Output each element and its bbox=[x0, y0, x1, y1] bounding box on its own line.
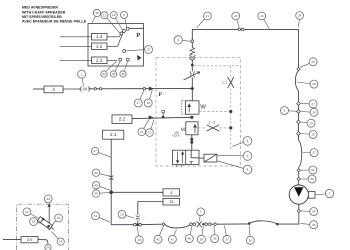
solenoid actuator bbox=[199, 154, 217, 162]
wire to hose 3 bbox=[33, 88, 44, 90]
fitting r5 bbox=[297, 132, 301, 136]
junction left main bbox=[109, 191, 113, 195]
fitting node f bbox=[126, 58, 129, 61]
svg-text:1.5: 1.5 bbox=[96, 44, 103, 49]
balloon b-bot6 bbox=[154, 226, 163, 243]
svg-text:3: 3 bbox=[52, 87, 55, 92]
balloon b-m7 bbox=[120, 71, 126, 77]
svg-text:47: 47 bbox=[93, 149, 97, 153]
right column wire 6 bbox=[298, 135, 300, 140]
svg-text:P: P bbox=[159, 92, 163, 98]
cyl feed wire bbox=[48, 206, 50, 230]
balloon b-filter bbox=[197, 208, 205, 221]
svg-text:30: 30 bbox=[311, 133, 315, 137]
junction below M a bbox=[190, 138, 193, 141]
balloon b-c0 bbox=[44, 195, 52, 203]
orifice 1..2 cross bbox=[228, 77, 234, 88]
svg-text:42: 42 bbox=[156, 237, 160, 241]
svg-text:+23-6: +23-6 bbox=[172, 134, 180, 138]
wire M to valve bbox=[191, 135, 193, 150]
svg-text:35: 35 bbox=[312, 223, 316, 227]
hose curve right a bbox=[295, 71, 298, 91]
hose bump bbox=[249, 221, 277, 224]
test point bbox=[162, 110, 165, 116]
balloon b-v2 bbox=[146, 120, 154, 137]
wire 2.0 right bbox=[38, 240, 48, 244]
fitting r3 bbox=[297, 110, 301, 114]
top line bbox=[192, 28, 298, 30]
pump P1 bbox=[289, 185, 315, 204]
svg-text:55: 55 bbox=[59, 240, 63, 244]
balloon b-cpl1 bbox=[134, 90, 144, 107]
balloon b-l2 bbox=[92, 169, 109, 176]
wire 2.1 down bbox=[110, 139, 112, 225]
orifice 2-3 cross bbox=[207, 125, 220, 131]
wire left of 1.5 bbox=[60, 45, 92, 47]
hose label 2.0 bbox=[21, 237, 38, 243]
svg-text:36: 36 bbox=[249, 238, 253, 242]
throttle arrow bbox=[184, 72, 200, 80]
balloon b-20end bbox=[45, 244, 51, 250]
balloon b-r9 bbox=[301, 166, 317, 174]
svg-text:39: 39 bbox=[200, 237, 204, 241]
bottom wire to corner bbox=[111, 224, 133, 226]
svg-text:2.2: 2.2 bbox=[119, 117, 126, 122]
flow arrow 2 bbox=[149, 116, 153, 120]
hose 1.4 to port bbox=[119, 34, 121, 37]
fitting r2 bbox=[297, 102, 301, 106]
svg-text:7: 7 bbox=[200, 210, 202, 214]
svg-text:27: 27 bbox=[311, 102, 315, 106]
balloon b-r5 bbox=[301, 119, 315, 127]
valve 2.2 lower bbox=[112, 115, 132, 124]
pilot line M bbox=[198, 127, 206, 129]
svg-text:18: 18 bbox=[146, 101, 150, 105]
pilot riser bbox=[230, 66, 232, 77]
balloon b-valve-red bbox=[232, 137, 252, 147]
relief valve spring bbox=[190, 48, 194, 55]
svg-text:M: M bbox=[181, 127, 185, 133]
fitting pump bbox=[297, 209, 300, 212]
hose label 4 bbox=[163, 189, 180, 196]
right column wire 4 bbox=[298, 113, 300, 120]
balloon b-r6 bbox=[301, 131, 318, 139]
balloon b-t3 bbox=[258, 12, 269, 29]
balloon b-t2 bbox=[232, 12, 240, 28]
svg-text:13: 13 bbox=[169, 199, 174, 204]
svg-text:MIT SPREUVERTEILER: MIT SPREUVERTEILER bbox=[22, 15, 62, 19]
balloon b-r10 bbox=[301, 175, 317, 183]
coupling cluster left bbox=[190, 223, 196, 226]
coupling ring a bbox=[94, 88, 96, 90]
balloon b-bot4 bbox=[185, 226, 193, 242]
pilot line W bbox=[199, 110, 231, 112]
hose sag bbox=[165, 224, 190, 228]
svg-text:38: 38 bbox=[213, 237, 217, 241]
balloon b-sol2 bbox=[217, 161, 252, 174]
riser wire 5 bbox=[191, 78, 193, 89]
cyl junction b bbox=[47, 225, 50, 228]
cyl feed arrow bbox=[48, 204, 51, 207]
balloon b-c3 bbox=[51, 214, 62, 226]
filter cross bbox=[197, 221, 202, 227]
fitting b2 bbox=[162, 223, 165, 226]
svg-text:16: 16 bbox=[95, 11, 99, 15]
svg-text:2.1: 2.1 bbox=[110, 132, 117, 137]
fitting b1 bbox=[214, 223, 217, 226]
tilt cylinder bbox=[38, 217, 56, 232]
fitting node a bbox=[120, 32, 123, 35]
wire right of 2.2 bbox=[107, 59, 117, 61]
coupling on box13 drop bbox=[136, 215, 140, 219]
svg-text:51: 51 bbox=[94, 214, 98, 218]
bottom wire right bbox=[277, 222, 299, 225]
wire box13 left bbox=[138, 201, 163, 203]
coupling on top line bbox=[238, 28, 244, 31]
title text block bbox=[22, 6, 87, 24]
quick coupling pair bbox=[80, 87, 90, 91]
machine enclosure dashed bbox=[156, 57, 240, 166]
wire box13 down bbox=[137, 202, 139, 215]
svg-text:2 - 3: 2 - 3 bbox=[209, 121, 216, 125]
pilot riser 4 bbox=[230, 130, 232, 150]
fitting node e bbox=[119, 58, 122, 61]
bottom wire mid bbox=[217, 223, 249, 225]
svg-text:48: 48 bbox=[94, 171, 98, 175]
wire left of 2.2 bbox=[60, 59, 92, 61]
coupling ring c bbox=[143, 88, 145, 90]
balloon b-l3 bbox=[92, 182, 109, 191]
fitting node c bbox=[126, 27, 129, 30]
valve 2.1 bbox=[103, 130, 124, 139]
svg-text:17: 17 bbox=[136, 101, 140, 105]
svg-text:8: 8 bbox=[247, 139, 249, 143]
svg-text:5: 5 bbox=[177, 38, 179, 42]
svg-text:3: 3 bbox=[247, 154, 249, 158]
svg-text:28: 28 bbox=[312, 110, 316, 114]
wire hose3 to coupling bbox=[63, 88, 82, 90]
svg-text:6: 6 bbox=[284, 109, 286, 113]
riser wire 3 bbox=[191, 61, 193, 64]
pilot riser 3 bbox=[230, 113, 232, 127]
junction check valve bbox=[191, 64, 194, 67]
svg-text:25: 25 bbox=[311, 60, 315, 64]
balloon b-hose3 bbox=[78, 70, 86, 86]
svg-text:2: 2 bbox=[329, 192, 331, 196]
coupling cluster far left bbox=[134, 223, 142, 226]
riser fitting bbox=[191, 40, 194, 43]
svg-text:WITH CHAFF SPREADER: WITH CHAFF SPREADER bbox=[22, 10, 66, 14]
cyl junction a bbox=[42, 218, 45, 221]
throttle flags bbox=[190, 71, 195, 77]
balloon b-m1 bbox=[101, 12, 120, 33]
svg-text:MED AVNESPREDER: MED AVNESPREDER bbox=[22, 6, 58, 10]
balloon b-r1 bbox=[300, 58, 317, 68]
auger enclosure dash-dot bbox=[17, 204, 69, 250]
hose 1.5 to port bbox=[118, 32, 124, 46]
svg-text:31: 31 bbox=[312, 151, 316, 155]
svg-text:56: 56 bbox=[46, 246, 50, 250]
pump wire down bbox=[298, 213, 300, 224]
svg-text:49: 49 bbox=[94, 183, 98, 187]
black arrow marker bbox=[137, 55, 141, 60]
junction b3 bbox=[136, 223, 139, 226]
balloon b-p1 bbox=[300, 208, 317, 216]
wire right of 1.4 bbox=[107, 36, 119, 38]
svg-text:22: 22 bbox=[234, 14, 238, 18]
svg-text:1: 1 bbox=[81, 72, 83, 76]
fitting node b bbox=[122, 30, 125, 33]
balloon b-cpl2 bbox=[144, 90, 152, 107]
balloon b-c4 bbox=[52, 232, 65, 246]
junction P line bbox=[191, 87, 194, 90]
svg-text:26: 26 bbox=[312, 82, 316, 86]
balloon b-block bbox=[92, 9, 101, 23]
balloon b-r4 bbox=[301, 108, 318, 116]
hose stub e bbox=[115, 61, 120, 70]
junction tp bbox=[162, 116, 165, 119]
wire box13 down2 bbox=[137, 220, 139, 224]
svg-text:50: 50 bbox=[94, 192, 98, 196]
right column wire 9 bbox=[298, 181, 300, 186]
junction b2 bbox=[202, 223, 204, 225]
balloon b-l6 bbox=[118, 210, 134, 218]
right column wire 1 bbox=[298, 29, 300, 67]
svg-text:9: 9 bbox=[123, 13, 125, 17]
pilot line M2 bbox=[220, 127, 231, 129]
balloon b-r3 bbox=[301, 100, 318, 108]
svg-text:34: 34 bbox=[312, 210, 316, 214]
svg-text:15: 15 bbox=[148, 131, 152, 135]
riser wire 2 bbox=[191, 43, 193, 48]
svg-text:41: 41 bbox=[171, 237, 175, 241]
flow arrow P bbox=[149, 87, 153, 91]
svg-text:10: 10 bbox=[147, 48, 151, 52]
svg-text:52: 52 bbox=[25, 210, 29, 214]
svg-text:19: 19 bbox=[137, 238, 141, 242]
right column wire 2 bbox=[298, 91, 300, 102]
balloon b-r2 bbox=[297, 80, 318, 88]
wire right of 1.5 bbox=[107, 45, 118, 47]
right column wire 5 bbox=[298, 124, 300, 132]
valve 2.2 bbox=[92, 57, 108, 64]
coupling ring b bbox=[99, 88, 101, 90]
hose label 13 bbox=[163, 198, 180, 205]
bottom wire left bbox=[142, 223, 162, 225]
spreader motor W bbox=[182, 101, 207, 114]
svg-text:2.2: 2.2 bbox=[96, 58, 103, 63]
balloon b-t1 bbox=[197, 12, 212, 28]
balloon b-bot5 bbox=[168, 230, 176, 244]
coupling cluster right bbox=[205, 223, 211, 226]
balloon b-pumpflange bbox=[315, 189, 333, 197]
balloon b-bot1 bbox=[223, 226, 231, 244]
wire left of 1.4 bbox=[60, 36, 92, 38]
balloon b-bot7 bbox=[135, 227, 143, 244]
balloon b-bot0 bbox=[246, 225, 254, 244]
svg-text:45: 45 bbox=[112, 72, 116, 76]
hose stub g bbox=[106, 61, 116, 71]
wire 2.2 to arrow bbox=[132, 117, 192, 118]
svg-text:1..2: 1..2 bbox=[222, 81, 227, 85]
pilot node M bbox=[229, 126, 232, 129]
svg-text:21: 21 bbox=[206, 14, 210, 18]
svg-text:12: 12 bbox=[103, 13, 107, 17]
hose stub f bbox=[125, 61, 128, 70]
manifold block housing bbox=[88, 24, 144, 66]
hose curve right b bbox=[299, 140, 302, 168]
balloon b-l5 bbox=[92, 212, 110, 222]
svg-text:44: 44 bbox=[102, 72, 106, 76]
svg-text:37: 37 bbox=[225, 237, 229, 241]
hose label 3 bbox=[44, 86, 63, 93]
svg-text:54: 54 bbox=[57, 216, 61, 220]
pilot riser 2 bbox=[230, 88, 232, 110]
fitting r4 bbox=[297, 120, 301, 124]
balloon b-m2 bbox=[110, 12, 123, 31]
right column wire 7 bbox=[298, 168, 300, 169]
fitting r7 bbox=[297, 177, 300, 180]
right column wire 8 bbox=[298, 172, 300, 177]
balloon b-bot2 bbox=[211, 226, 219, 242]
balloon b-m3 bbox=[121, 12, 128, 29]
balloon b-l4 bbox=[92, 190, 110, 197]
wire into 2.0 bbox=[3, 239, 21, 241]
balloon b-r7 bbox=[281, 107, 297, 115]
balloon b-t4 bbox=[296, 12, 304, 28]
svg-text:53: 53 bbox=[32, 220, 36, 224]
svg-text:AVEC ÉPANDEUR DE MENUE PAILLE: AVEC ÉPANDEUR DE MENUE PAILLE bbox=[22, 18, 87, 23]
svg-text:1.4: 1.4 bbox=[96, 34, 103, 39]
port P wire bbox=[129, 27, 144, 29]
riser wire upper bbox=[191, 29, 193, 40]
balloon b-r8 bbox=[303, 149, 319, 157]
valve 1.4 bbox=[92, 34, 108, 41]
check valve chevrons bbox=[189, 55, 195, 60]
pilot line top bbox=[194, 65, 240, 67]
balloon b-m6 bbox=[110, 71, 116, 77]
svg-text:46: 46 bbox=[121, 72, 125, 76]
svg-text:13: 13 bbox=[112, 13, 116, 17]
junction bl1 bbox=[276, 223, 279, 226]
svg-text:32: 32 bbox=[311, 168, 315, 172]
svg-text:20: 20 bbox=[120, 212, 124, 216]
svg-text:24: 24 bbox=[298, 14, 302, 18]
directional valve body bbox=[173, 150, 200, 164]
svg-text:W: W bbox=[200, 104, 206, 111]
balloon b-c2 bbox=[30, 218, 41, 226]
bottom wire mid2 bbox=[212, 223, 214, 225]
svg-text:11: 11 bbox=[140, 130, 143, 134]
fitting r1 bbox=[297, 67, 300, 70]
svg-text:40: 40 bbox=[188, 237, 192, 241]
setting text bbox=[172, 130, 180, 137]
balloon b-v1 bbox=[138, 120, 149, 136]
right column wire 3 bbox=[298, 106, 300, 110]
balloon b-c1 bbox=[23, 208, 38, 218]
svg-text:2.0: 2.0 bbox=[27, 237, 33, 242]
riser wire 4 bbox=[191, 66, 193, 72]
riser wire to W bbox=[191, 89, 193, 101]
balloon b-sol1 bbox=[217, 152, 252, 161]
balloon b-checkvalve bbox=[174, 36, 191, 44]
svg-text:P: P bbox=[136, 32, 140, 39]
leader to node d bbox=[126, 50, 145, 51]
valve drain stubs bbox=[176, 165, 181, 168]
fitting node d bbox=[123, 50, 126, 53]
pump outlet wire bbox=[298, 204, 300, 209]
balloon b-bot3 bbox=[197, 226, 205, 243]
balloon b-l1 bbox=[91, 147, 110, 157]
pilot node W bbox=[229, 110, 232, 113]
coupling on drop wire bbox=[109, 175, 113, 179]
junction bl2 bbox=[248, 222, 251, 225]
balloon b-m4 bbox=[145, 46, 153, 54]
balloon b-p2 bbox=[300, 221, 317, 229]
svg-text:29: 29 bbox=[309, 121, 313, 125]
fitting r6 bbox=[297, 169, 300, 172]
wire coupling to P arrow bbox=[89, 88, 193, 90]
svg-text:4: 4 bbox=[247, 168, 249, 172]
balloon b-m5 bbox=[101, 71, 107, 77]
valve 1.5 bbox=[92, 43, 108, 50]
svg-text:33: 33 bbox=[310, 177, 314, 181]
junction below M b bbox=[190, 141, 193, 144]
spreader motor M bbox=[181, 122, 198, 135]
svg-text:23: 23 bbox=[260, 14, 264, 18]
wire junction to box4 bbox=[111, 191, 163, 193]
junction below W bbox=[190, 116, 193, 119]
svg-text:43: 43 bbox=[46, 197, 50, 201]
